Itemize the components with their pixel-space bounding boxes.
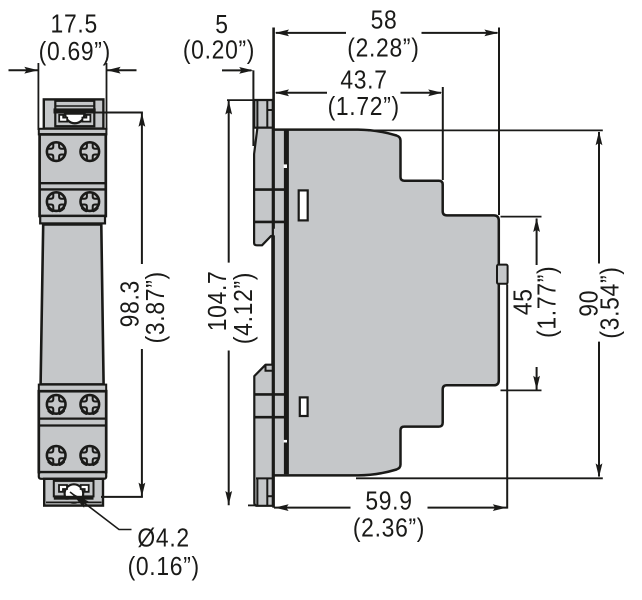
- svg-text:(2.36”): (2.36”): [353, 514, 425, 543]
- svg-text:5: 5: [215, 11, 228, 40]
- svg-text:Ø4.2: Ø4.2: [137, 524, 189, 553]
- svg-text:(0.20”): (0.20”): [183, 36, 255, 65]
- svg-text:104.7: 104.7: [204, 271, 233, 332]
- svg-text:(1.77”): (1.77”): [533, 266, 562, 338]
- svg-text:(0.16”): (0.16”): [128, 553, 200, 582]
- svg-text:59.9: 59.9: [365, 487, 412, 516]
- svg-text:(4.12”): (4.12”): [230, 272, 259, 344]
- svg-text:(0.69”): (0.69”): [39, 38, 111, 67]
- svg-text:(2.28”): (2.28”): [347, 34, 419, 63]
- svg-text:98.3: 98.3: [116, 280, 145, 327]
- svg-text:43.7: 43.7: [340, 66, 387, 95]
- svg-text:(3.54”): (3.54”): [596, 266, 625, 338]
- svg-text:58: 58: [371, 6, 398, 35]
- svg-text:(1.72”): (1.72”): [328, 93, 400, 122]
- svg-text:(3.87”): (3.87”): [142, 271, 171, 343]
- svg-text:17.5: 17.5: [51, 10, 98, 39]
